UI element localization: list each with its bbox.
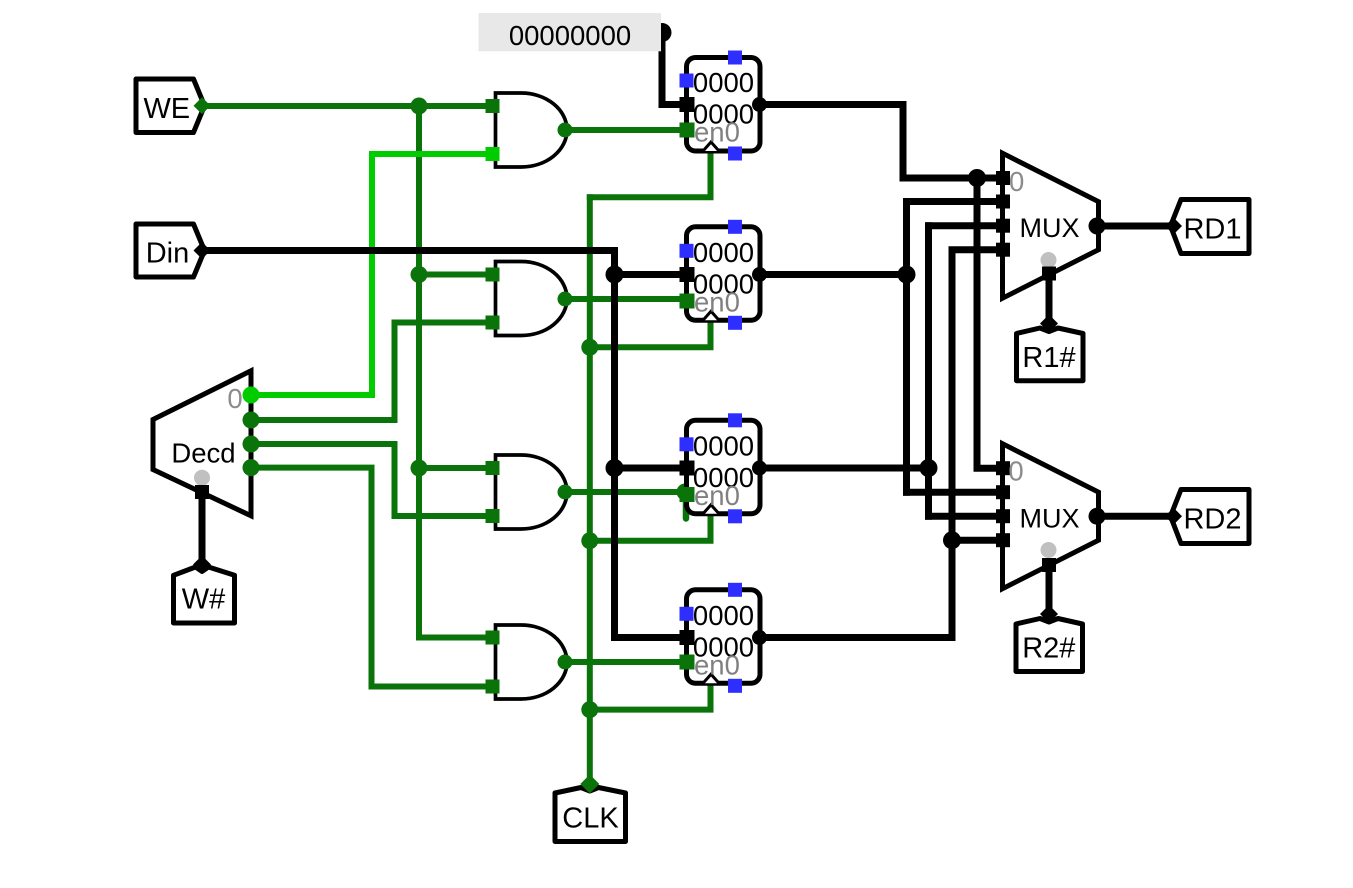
- svg-text:0000: 0000: [693, 237, 754, 268]
- wire CLK to REG1 clock: [590, 320, 711, 347]
- wire Decd out2 to AND3 input B: [251, 444, 490, 516]
- wire Decd out0 to AND1 input B (high): [251, 154, 490, 395]
- and-gate AND2: [486, 262, 573, 336]
- wire MUX1 out to RD1: [1099, 223, 1172, 230]
- wire REG2 net to MUX2 in2: [929, 513, 1001, 520]
- wire AND4 out to REG3 enable: [566, 659, 687, 665]
- wire constant to REG0 D: [662, 33, 682, 105]
- wire AND1 out to REG0 enable: [566, 127, 687, 133]
- and-gate AND4: [486, 625, 573, 699]
- wire MUX1 select to R1#: [1046, 275, 1053, 323]
- svg-text:R1#: R1#: [1022, 342, 1075, 374]
- svg-text:RD1: RD1: [1183, 214, 1241, 246]
- input pin WE: [136, 79, 211, 133]
- wire WE vertical trunk: [416, 106, 422, 638]
- wire REG2 net vertical: [925, 226, 932, 517]
- svg-text:Din: Din: [146, 238, 190, 270]
- wire REG0 Q branch down to MUX2 in0: [977, 178, 1000, 468]
- wire AND3 out to REG2 enable: [566, 489, 687, 495]
- wire CLK vertical trunk: [587, 197, 593, 781]
- junction CLK/REG3: [581, 701, 598, 718]
- junction Din/REG2: [606, 459, 624, 477]
- wire REG1 net vertical: [903, 202, 910, 493]
- wire MUX2 select to R2#: [1046, 566, 1053, 612]
- svg-text:MUX: MUX: [1020, 213, 1080, 243]
- and-gate AND1: [486, 93, 573, 167]
- junction WE/AND3: [411, 460, 428, 477]
- register REG1: [680, 220, 768, 330]
- constant value label 00000000: [479, 13, 662, 51]
- input pin Din: [136, 224, 211, 277]
- svg-text:en0: en0: [694, 650, 740, 681]
- junction REG3 net: [943, 531, 961, 549]
- input pin R2#: [1016, 605, 1083, 672]
- wire WE to AND1 input A: [205, 103, 490, 109]
- multiplexer MUX2: [996, 444, 1106, 589]
- register REG2: [680, 413, 768, 523]
- wire CLK to REG3 clock: [590, 683, 711, 709]
- wire Din vertical trunk: [611, 251, 618, 638]
- output pin RD1: [1165, 200, 1249, 254]
- svg-text:0: 0: [1009, 166, 1024, 197]
- wire WE branch to AND4 input A: [419, 635, 490, 641]
- wire CLK to REG2 clock: [590, 514, 711, 541]
- svg-text:WE: WE: [143, 93, 190, 125]
- wire WE branch to AND2 input A: [419, 272, 490, 278]
- wire Decd select to W#: [199, 492, 206, 564]
- wire CLK to REG0 clock: [590, 151, 711, 197]
- wire Din branch to REG1 D: [615, 271, 683, 278]
- wire REG3 Q to MUX1 in3: [760, 250, 1001, 638]
- svg-text:0: 0: [227, 383, 242, 414]
- svg-text:en0: en0: [694, 287, 740, 318]
- svg-text:0000: 0000: [693, 67, 754, 98]
- wire WE branch to AND3 input A: [419, 465, 490, 471]
- wire MUX2 out to RD2: [1099, 513, 1172, 520]
- wire Din horizontal: [205, 247, 615, 254]
- junction Din/REG1: [606, 266, 624, 284]
- svg-text:MUX: MUX: [1020, 504, 1080, 534]
- wire REG1 net to MUX1 in1: [907, 198, 1001, 205]
- svg-text:Decd: Decd: [171, 438, 235, 469]
- svg-text:0000: 0000: [693, 431, 754, 462]
- svg-text:0000: 0000: [693, 600, 754, 631]
- register REG3: [680, 583, 768, 693]
- wire REG1 Q horizontal: [760, 271, 907, 278]
- junction WE/AND2: [411, 266, 428, 283]
- multiplexer MUX1: [996, 153, 1106, 298]
- junction WE/AND1: [411, 98, 428, 115]
- junction REG0 net: [968, 169, 986, 187]
- wire REG2 Q horizontal: [760, 465, 929, 472]
- svg-text:R2#: R2#: [1022, 633, 1075, 665]
- wire Decd out1 to AND2 input B: [251, 323, 490, 421]
- wire stub below REG2 enable: [683, 494, 690, 519]
- output pin RD2: [1165, 490, 1249, 544]
- wire REG1 net to MUX2 in1: [907, 489, 1001, 496]
- wire AND2 out to REG1 enable: [566, 296, 687, 302]
- svg-text:en0: en0: [694, 117, 740, 148]
- junction REG1 net: [898, 266, 916, 284]
- svg-text:0: 0: [1008, 456, 1023, 487]
- node constant output: [653, 23, 672, 42]
- input pin W#: [174, 556, 235, 624]
- wire REG0 Q to MUX1 in0: [760, 105, 1001, 179]
- svg-text:00000000: 00000000: [509, 20, 631, 51]
- register REG0: [680, 51, 768, 161]
- svg-text:W#: W#: [182, 584, 226, 616]
- wire REG3 net to MUX2 in3: [952, 537, 1000, 544]
- input pin CLK: [555, 775, 626, 842]
- wire Din branch to REG3 D: [615, 634, 683, 641]
- wire Din branch to REG2 D: [615, 465, 683, 472]
- junction CLK/REG1: [581, 339, 598, 356]
- svg-text:RD2: RD2: [1183, 504, 1241, 536]
- and-gate AND3: [486, 455, 573, 529]
- svg-text:CLK: CLK: [562, 803, 619, 835]
- wire REG2 net to MUX1 in2: [929, 222, 1001, 229]
- junction CLK/REG2: [581, 532, 598, 549]
- input pin R1#: [1017, 315, 1084, 381]
- wire Decd out3 to AND4 input B: [251, 468, 490, 687]
- junction REG2 enable branch: [677, 484, 694, 501]
- junction REG2 net: [920, 459, 938, 477]
- decoder Decd: [153, 371, 260, 516]
- svg-text:en0: en0: [694, 480, 740, 511]
